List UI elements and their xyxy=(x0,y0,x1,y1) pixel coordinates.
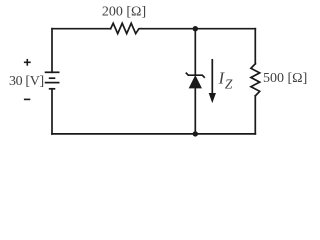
resistor R1 200 ohm zigzag xyxy=(111,23,142,33)
junction dot top xyxy=(193,26,198,31)
wire right vertical lower xyxy=(254,96,256,134)
zener diode D1 anode triangle xyxy=(189,76,201,88)
svg-text:30 [V]: 30 [V] xyxy=(9,74,44,89)
wire zener branch upper xyxy=(194,29,196,75)
wire right vertical upper xyxy=(254,29,256,64)
svg-text:200 [Ω]: 200 [Ω] xyxy=(102,5,146,20)
wire left vertical upper (battery + lead) xyxy=(51,29,53,73)
wire top-left horizontal xyxy=(52,28,111,30)
wire left vertical lower (battery - lead) xyxy=(51,89,53,134)
zener diode D1 cathode bar with bent ends xyxy=(186,73,205,78)
svg-text:Z: Z xyxy=(225,77,233,92)
plus sign of source xyxy=(24,59,31,66)
wire zener branch lower xyxy=(194,88,196,134)
wire bottom horizontal xyxy=(52,133,255,135)
wire top-right horizontal xyxy=(141,28,255,30)
current arrow Iz xyxy=(209,59,215,102)
svg-text:500 [Ω]: 500 [Ω] xyxy=(263,71,307,86)
junction dot bottom xyxy=(193,131,198,136)
battery V1 30 V plates xyxy=(45,72,60,89)
minus sign of source xyxy=(24,98,30,100)
resistor R2 500 ohm zigzag xyxy=(251,64,260,96)
